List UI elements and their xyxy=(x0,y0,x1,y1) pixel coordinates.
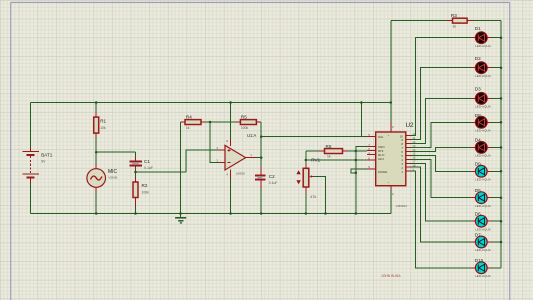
svg-text:SIG: SIG xyxy=(378,135,384,139)
node: output junction xyxy=(260,156,263,159)
wire: R3 to anode rail xyxy=(473,20,501,22)
node: C1/R2 junction xyxy=(134,171,137,174)
LED D9 (lit) xyxy=(471,162,501,182)
svg-text:R4: R4 xyxy=(186,114,192,119)
svg-text:R1: R1 xyxy=(100,119,106,124)
node: RV1 top junction xyxy=(305,159,308,162)
wire: mic junction to C1 xyxy=(96,151,135,153)
microphone MIC (VSINE) xyxy=(87,152,118,213)
wire: L10 to D1 xyxy=(412,38,472,136)
IC U2 LM3914 xyxy=(367,122,416,208)
svg-text:LED-AQUA: LED-AQUA xyxy=(475,204,492,208)
svg-text:D4: D4 xyxy=(475,138,481,143)
svg-text:0.1uF: 0.1uF xyxy=(144,166,153,170)
svg-text:>: > xyxy=(388,180,390,184)
wire: junction to RHI pin xyxy=(356,150,367,152)
node: feedback junction xyxy=(209,121,212,124)
node: RV1 bottom on rail xyxy=(305,212,308,215)
resistor R4 xyxy=(181,114,207,130)
capacitor C2 xyxy=(255,167,277,214)
wire: R5 right down to output node xyxy=(260,122,262,167)
resistor R3 xyxy=(446,13,473,29)
wire: V+ rail stub down xyxy=(360,103,362,137)
svg-text:MODE: MODE xyxy=(378,170,387,174)
wire: L5 to D9 xyxy=(412,155,472,171)
wire: L4 to D5 xyxy=(412,159,472,197)
wire: left rail lower xyxy=(30,183,32,213)
svg-text:LM358: LM358 xyxy=(236,171,245,175)
svg-text:C1: C1 xyxy=(144,159,150,164)
LED D10 (lit) xyxy=(471,258,501,278)
wire: main loop top rail xyxy=(31,102,391,104)
svg-text:LED-AQUA: LED-AQUA xyxy=(475,227,492,231)
LED D1 xyxy=(471,26,501,48)
svg-text:JOHN BUNA: JOHN BUNA xyxy=(381,274,401,278)
wire: mid vertical to ground rail xyxy=(355,151,357,214)
wire: R4 left drop to ground xyxy=(180,122,182,217)
svg-text:LED-AQUA: LED-AQUA xyxy=(475,177,492,181)
svg-text:LED-AQUA: LED-AQUA xyxy=(475,248,492,252)
wire: L1 to D10 xyxy=(412,171,472,268)
svg-text:10k: 10k xyxy=(100,126,106,130)
LED D3 xyxy=(471,87,501,109)
svg-text:LED-AQUA: LED-AQUA xyxy=(475,105,492,109)
node: mic bottom on rail xyxy=(95,212,98,215)
wire: L6 to D4 xyxy=(412,147,472,151)
wire: LED anode rail xyxy=(500,21,502,268)
svg-text:C2: C2 xyxy=(269,174,275,179)
svg-text:9V: 9V xyxy=(41,160,46,164)
wire: R1 bottom to mic junction xyxy=(95,138,97,152)
wire: IC V- riser xyxy=(390,190,392,213)
wire: ADJ long wire xyxy=(306,159,367,161)
svg-text:R6: R6 xyxy=(326,144,332,149)
ground xyxy=(175,218,186,223)
wire: bottom ground rail xyxy=(31,213,391,215)
svg-text:D8: D8 xyxy=(475,113,481,118)
wire: RV1 wiper to ground xyxy=(314,177,326,214)
node: rail stub xyxy=(360,101,363,104)
svg-text:D3: D3 xyxy=(475,87,481,92)
wire: junction to riser xyxy=(136,171,186,173)
LED D4 xyxy=(471,138,501,158)
node: R1 top junction xyxy=(95,101,98,104)
node: IC V+ junction on top rail xyxy=(390,101,393,104)
svg-text:R3: R3 xyxy=(451,13,457,18)
battery BAT1 xyxy=(22,148,52,184)
wire: junction up to VRO pin xyxy=(356,147,367,152)
svg-text:LED-AQUA: LED-AQUA xyxy=(475,74,492,78)
LED D7 (lit) xyxy=(471,232,501,252)
svg-text:VSINE: VSINE xyxy=(108,175,117,179)
wire: R4 to R5 xyxy=(206,121,234,123)
svg-text:1k: 1k xyxy=(186,126,190,130)
svg-text:1k: 1k xyxy=(453,25,457,29)
wire: L2 to D7 xyxy=(412,167,472,242)
svg-text:1k: 1k xyxy=(327,155,331,159)
resistor R6 xyxy=(306,144,356,159)
svg-text:R2: R2 xyxy=(142,183,148,188)
wire: L3 to D6 xyxy=(412,163,472,221)
op-amp U1:A xyxy=(217,101,262,215)
node: R2 bottom on rail xyxy=(134,212,137,215)
svg-text:MIC: MIC xyxy=(108,169,118,175)
resistor R5 xyxy=(234,114,261,130)
resistor R2 xyxy=(133,172,149,214)
svg-text:LED-AQUA: LED-AQUA xyxy=(475,44,492,48)
wire: left rail upper xyxy=(30,103,32,148)
svg-text:D7: D7 xyxy=(475,232,481,237)
svg-text:BAT1: BAT1 xyxy=(41,153,53,158)
LED D5 (lit) xyxy=(471,188,501,208)
svg-text:100k: 100k xyxy=(241,126,249,130)
wire: IC V+ vertical xyxy=(390,21,392,122)
svg-text:LM3914: LM3914 xyxy=(396,204,407,208)
svg-text:D10: D10 xyxy=(475,258,484,263)
wire: junction down to pin2 xyxy=(210,122,218,162)
wire: C1 drop xyxy=(135,152,137,157)
svg-text:>: > xyxy=(388,134,390,138)
node: MODE join xyxy=(355,172,358,175)
svg-text:U1:A: U1:A xyxy=(247,133,257,138)
wire: R1 top lead xyxy=(95,103,97,113)
wire: L8 to D3 xyxy=(412,98,472,143)
svg-text:R5: R5 xyxy=(241,114,247,119)
svg-text:LED-AQUA: LED-AQUA xyxy=(475,154,492,158)
svg-text:D2: D2 xyxy=(475,56,481,61)
potentiometer RV1 xyxy=(296,157,320,213)
resistor R1 xyxy=(94,112,107,138)
svg-text:100k: 100k xyxy=(142,190,150,194)
capacitor C1 xyxy=(129,157,153,171)
svg-text:47k: 47k xyxy=(310,195,316,199)
svg-text:LED-AQUA: LED-AQUA xyxy=(475,274,492,278)
node: wiper wire on rail xyxy=(324,212,327,215)
svg-text:D9: D9 xyxy=(475,162,481,167)
svg-text:ADJ: ADJ xyxy=(378,157,384,161)
svg-text:D1: D1 xyxy=(475,26,481,31)
svg-text:D6: D6 xyxy=(475,212,481,217)
wire: R6 left down to ADJ net xyxy=(305,151,307,160)
wire: V+ to R3 xyxy=(391,20,446,22)
svg-text:D5: D5 xyxy=(475,188,481,193)
wire: L7 to D8 xyxy=(412,122,472,147)
wire: op-amp output to IC SIG xyxy=(261,136,367,138)
wire: MODE pin wire xyxy=(351,169,367,173)
svg-text:U2: U2 xyxy=(406,122,415,129)
LED D8 xyxy=(471,113,501,132)
node: mic junction xyxy=(95,151,98,154)
LED D6 (lit) xyxy=(471,212,501,232)
svg-text:RV1: RV1 xyxy=(311,157,320,162)
svg-text:0.1uF: 0.1uF xyxy=(269,181,278,185)
node: C2 bottom on rail xyxy=(260,212,263,215)
svg-text:LED-AQUA: LED-AQUA xyxy=(475,128,492,132)
node: ground rail junction xyxy=(179,212,182,215)
wire: L9 to D2 xyxy=(412,68,472,140)
node: R6 right junction xyxy=(355,150,358,153)
node: sig takeoff xyxy=(260,135,263,138)
wire: riser to op-amp pin3 xyxy=(186,150,219,172)
node: ADJ crossing xyxy=(355,159,358,162)
node: mid vertical on rail xyxy=(355,212,358,215)
LED D2 xyxy=(471,56,501,78)
